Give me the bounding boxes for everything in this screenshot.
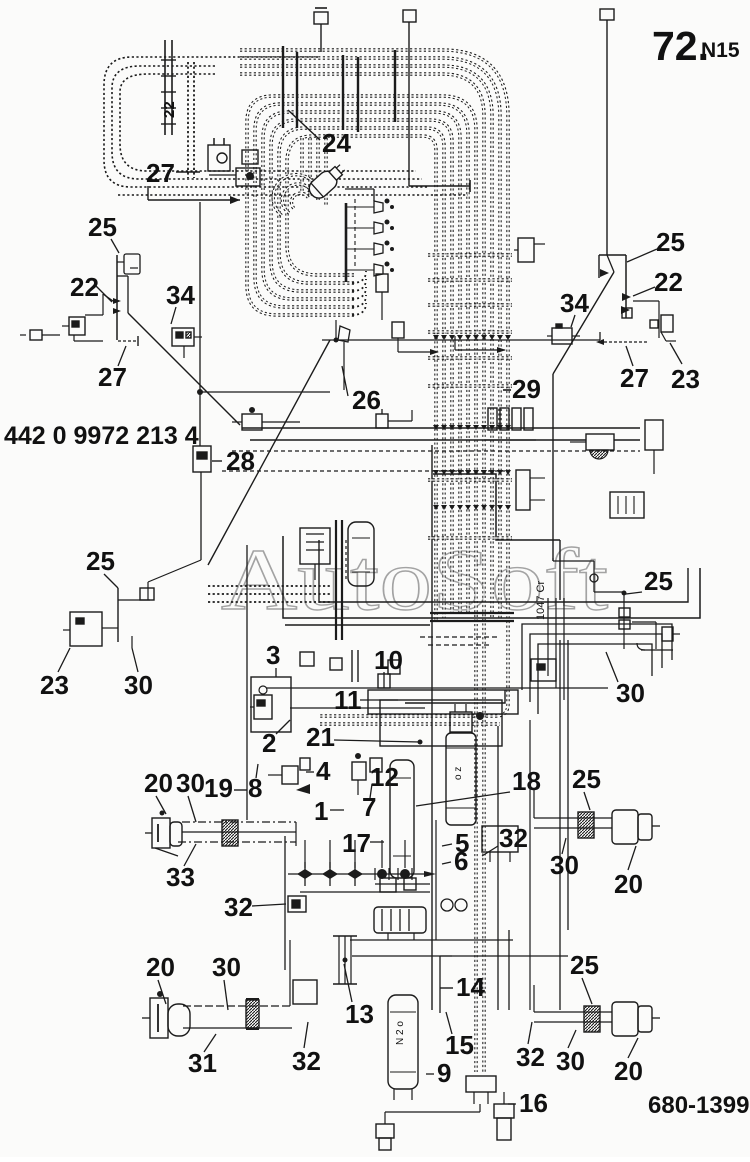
pump block bbox=[300, 528, 330, 564]
svg-text:33: 33 bbox=[166, 862, 195, 892]
svg-text:2: 2 bbox=[262, 728, 276, 758]
long line y956 bbox=[352, 955, 568, 957]
plug bottom-left bbox=[376, 1124, 394, 1138]
brake chamber left-mid bbox=[152, 818, 170, 848]
svg-text:20: 20 bbox=[144, 768, 173, 798]
nested frame lines bbox=[522, 624, 672, 690]
svg-text:3: 3 bbox=[266, 640, 280, 670]
svg-text:9: 9 bbox=[437, 1058, 451, 1088]
diagonal line long bbox=[208, 340, 330, 565]
pipe inner winding bbox=[300, 138, 303, 192]
connector bars top rows bbox=[282, 46, 284, 128]
small box under tank bbox=[482, 826, 518, 852]
frame line y625 bbox=[285, 624, 430, 626]
svg-text:6: 6 bbox=[454, 846, 468, 876]
svg-text:25: 25 bbox=[86, 546, 115, 576]
svg-text:32: 32 bbox=[224, 892, 253, 922]
valve block right-mid bbox=[516, 470, 530, 510]
small boxes y878 bbox=[380, 878, 396, 892]
box 32 small bbox=[288, 896, 306, 912]
svg-text:AutoSoft: AutoSoft bbox=[221, 531, 608, 629]
elbow line bbox=[433, 474, 560, 540]
air tank 9 bbox=[388, 995, 418, 1089]
pipe coil end hooks bbox=[352, 303, 366, 315]
manifold four valves bbox=[345, 203, 348, 282]
line to plug left bbox=[479, 1104, 481, 1112]
tall box right bbox=[645, 420, 663, 450]
fitting 27 left bbox=[118, 340, 136, 342]
long line y688 bbox=[266, 687, 608, 689]
axle lines bottom-right bbox=[534, 1011, 612, 1013]
long line y940 bbox=[350, 939, 513, 941]
svg-text:25: 25 bbox=[572, 764, 601, 794]
svg-text:25: 25 bbox=[570, 950, 599, 980]
filter right bbox=[586, 434, 614, 450]
axle lines left-mid bbox=[182, 821, 296, 823]
pipe curl to air dryer bbox=[291, 193, 308, 209]
svg-text:1: 1 bbox=[314, 796, 328, 826]
axle verticals bbox=[304, 840, 306, 868]
valve 27 box left bbox=[69, 317, 85, 335]
valve mid 240 bbox=[242, 414, 262, 430]
svg-text:25: 25 bbox=[88, 212, 117, 242]
svg-text:o z: o z bbox=[453, 767, 464, 780]
svg-text:19: 19 bbox=[204, 773, 233, 803]
brake chamber bottom-right bbox=[612, 1002, 638, 1036]
fitting right of bundle bbox=[518, 238, 534, 262]
svg-text:13: 13 bbox=[345, 999, 374, 1029]
valve 23 right bbox=[661, 315, 673, 332]
valve bracket right bbox=[599, 254, 626, 256]
valve 26c bbox=[392, 322, 404, 338]
svg-text:442 0 9972 213 4: 442 0 9972 213 4 bbox=[4, 422, 199, 450]
svg-text:34: 34 bbox=[166, 280, 195, 310]
pipe rows across bundle bbox=[428, 253, 512, 256]
valve 26a bbox=[338, 326, 350, 342]
svg-text:27: 27 bbox=[146, 158, 175, 188]
svg-text:22: 22 bbox=[70, 272, 99, 302]
svg-text:20: 20 bbox=[614, 869, 643, 899]
connector block bbox=[466, 1076, 496, 1092]
big frame F2 bbox=[319, 540, 688, 602]
svg-text:12: 12 bbox=[370, 762, 399, 792]
valve bracket left bbox=[116, 255, 118, 340]
pipe bundle top rows into right curve bbox=[318, 50, 508, 716]
plug bottom-right 16 bbox=[494, 1104, 514, 1118]
svg-text:30: 30 bbox=[616, 678, 645, 708]
valve on tank bbox=[450, 712, 472, 732]
svg-text:27: 27 bbox=[620, 363, 649, 393]
svg-text:15: 15 bbox=[445, 1030, 474, 1060]
pipe pair 22 vertical bbox=[164, 40, 166, 135]
valve 34 right bbox=[552, 328, 572, 344]
line down-left to tank cluster bbox=[148, 560, 201, 582]
svg-text:25: 25 bbox=[656, 227, 685, 257]
vertical tank small bbox=[348, 522, 374, 586]
svg-text:26: 26 bbox=[352, 385, 381, 415]
fitting 26b bbox=[376, 274, 388, 292]
svg-text:11: 11 bbox=[334, 685, 362, 715]
junction ticks on bundle bbox=[433, 335, 439, 340]
svg-text:4: 4 bbox=[316, 756, 331, 786]
svg-text:23: 23 bbox=[40, 670, 69, 700]
coupler right-mid bbox=[578, 812, 594, 838]
line 26 to bundle bbox=[455, 349, 505, 351]
fitting 27 right bbox=[604, 341, 648, 343]
tiny fitting far left bbox=[30, 330, 42, 340]
axle lines bottom-left bbox=[183, 1005, 292, 1007]
cluster right 25-30 bbox=[552, 558, 554, 561]
svg-text:30: 30 bbox=[176, 768, 205, 798]
frame rect A bbox=[368, 690, 518, 714]
svg-text:25: 25 bbox=[644, 566, 673, 596]
svg-text:7: 7 bbox=[362, 792, 376, 822]
svg-text:31: 31 bbox=[188, 1048, 217, 1078]
junction node bbox=[197, 389, 203, 395]
svg-text:1047 Cr: 1047 Cr bbox=[535, 581, 547, 620]
air tank center bbox=[390, 760, 414, 878]
line 19 vertical bbox=[246, 545, 248, 820]
valve cluster top-left bbox=[208, 145, 230, 171]
svg-text:30: 30 bbox=[550, 850, 579, 880]
svg-text:22: 22 bbox=[161, 101, 178, 118]
title 72.N15 bbox=[652, 23, 740, 69]
svg-text:20: 20 bbox=[146, 952, 175, 982]
pump motor bbox=[374, 907, 426, 933]
line 28 horizontal bbox=[232, 450, 640, 452]
valve in box 3 bbox=[254, 695, 272, 719]
dashed vert x346 bbox=[345, 540, 347, 580]
dark vertical pair bbox=[335, 520, 337, 640]
long line y708 bbox=[290, 707, 425, 709]
svg-text:N15: N15 bbox=[701, 39, 740, 62]
pipe coil loop left with columns bbox=[247, 96, 476, 1072]
vertical frame lines bottom bbox=[284, 836, 286, 970]
coupler bottom-right bbox=[584, 1006, 600, 1032]
svg-text:18: 18 bbox=[512, 766, 541, 796]
long line y340 bbox=[322, 339, 600, 341]
air dryer flask bbox=[306, 160, 349, 202]
svg-text:10: 10 bbox=[374, 645, 403, 675]
air tank right bbox=[446, 733, 476, 825]
svg-text:30: 30 bbox=[124, 670, 153, 700]
big frame F1 bbox=[283, 536, 700, 618]
air tank 23 left bbox=[117, 588, 119, 642]
axle lines right-mid bbox=[534, 817, 612, 819]
fitting top-1 bbox=[314, 12, 328, 24]
valves 4 cluster bbox=[282, 766, 298, 784]
fitting top-3 bbox=[600, 9, 614, 20]
svg-text:23: 23 bbox=[671, 364, 700, 394]
brake chamber right-mid bbox=[612, 810, 638, 844]
brake chamber bottom-left bbox=[150, 998, 168, 1038]
svg-text:32: 32 bbox=[292, 1046, 321, 1076]
long line y892 bbox=[300, 891, 430, 893]
svg-text:16: 16 bbox=[519, 1088, 548, 1118]
svg-text:32: 32 bbox=[499, 823, 528, 853]
svg-text:34: 34 bbox=[560, 288, 589, 318]
svg-text:24: 24 bbox=[322, 128, 351, 158]
svg-text:680-1399: 680-1399 bbox=[648, 1092, 749, 1119]
svg-text:8: 8 bbox=[248, 773, 262, 803]
svg-text:32: 32 bbox=[516, 1042, 545, 1072]
svg-text:N 2 o: N 2 o bbox=[395, 1021, 406, 1045]
svg-text:22: 22 bbox=[654, 267, 683, 297]
long lines y428-446 bbox=[242, 427, 640, 429]
svg-text:20: 20 bbox=[614, 1056, 643, 1086]
coupler bottom-left bbox=[246, 1000, 259, 1028]
fitting 26d bbox=[376, 414, 388, 428]
valve right-frame bbox=[531, 659, 556, 681]
valves quad right bbox=[488, 408, 497, 430]
frame box 3 bbox=[251, 677, 291, 732]
icons row 655 bbox=[300, 652, 314, 666]
right long line diagonal bbox=[553, 272, 614, 374]
diagonal line 34-area bbox=[128, 313, 240, 425]
frame line x432 bbox=[431, 445, 433, 1010]
fitting top-2 bbox=[403, 10, 416, 22]
dumbbell 13 bbox=[333, 935, 357, 937]
svg-text:29: 29 bbox=[512, 374, 541, 404]
frame rect B bbox=[380, 700, 502, 746]
pipe row mid y724 bbox=[320, 722, 500, 725]
dashed pipes left loop extra bbox=[187, 62, 189, 178]
pipe loop top-left bbox=[240, 48, 318, 51]
coupler left-mid bbox=[222, 820, 238, 846]
valves 12 cluster bbox=[352, 762, 366, 780]
svg-text:17: 17 bbox=[342, 828, 371, 858]
valve 34 left bbox=[172, 328, 194, 346]
rows y585 bbox=[208, 585, 332, 587]
svg-text:14: 14 bbox=[456, 972, 485, 1002]
svg-text:21: 21 bbox=[306, 722, 335, 752]
valve 28 bbox=[193, 446, 211, 472]
svg-text:27: 27 bbox=[98, 362, 127, 392]
svg-text:30: 30 bbox=[212, 952, 241, 982]
svg-text:30: 30 bbox=[556, 1046, 585, 1076]
axle assembly center bbox=[288, 873, 430, 875]
solid lines under bundle bbox=[430, 612, 514, 614]
